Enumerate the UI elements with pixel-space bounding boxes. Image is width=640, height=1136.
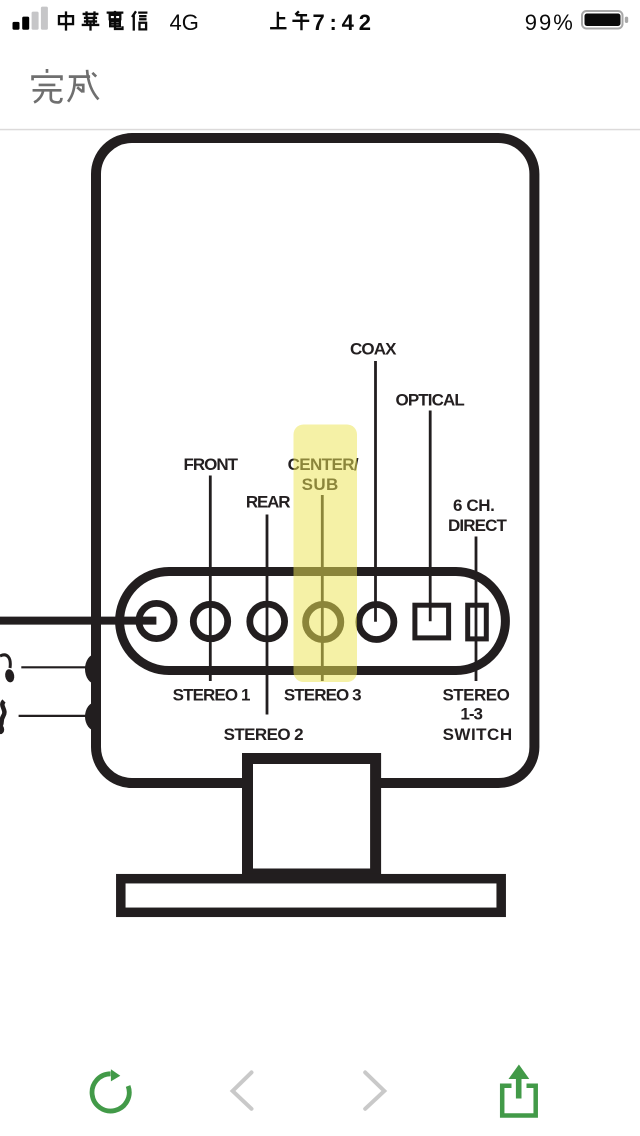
RCA jack 1 <box>139 603 174 638</box>
input wire into jack 1 <box>0 617 156 625</box>
toolbar: back chevron <box>233 1072 252 1108</box>
svg-text:4G: 4G <box>170 10 199 35</box>
status bar: battery nub <box>625 17 628 23</box>
leader line COAX to jack 5 <box>374 361 377 622</box>
svg-text:STEREO 1: STEREO 1 <box>173 685 250 704</box>
status bar: battery fill <box>585 14 621 27</box>
stand base <box>121 879 501 913</box>
svg-text:1-3: 1-3 <box>460 705 482 724</box>
device body outline <box>96 138 534 783</box>
cable squiggle end (top-left) <box>0 655 10 668</box>
status bar: time 上午 <box>270 11 309 30</box>
switch slot rectangle <box>468 605 487 639</box>
svg-text:STEREO 3: STEREO 3 <box>284 685 361 704</box>
svg-text:FRONT: FRONT <box>184 455 239 474</box>
toolbar: forward chevron <box>365 1072 384 1108</box>
cable blob (top-left) <box>4 669 15 684</box>
status bar: battery body outline <box>582 11 623 29</box>
svg-text:7:42: 7:42 <box>313 10 376 35</box>
RCA jack 3 (REAR) <box>250 604 285 639</box>
stand neck <box>248 759 376 875</box>
RCA jack 4 (CENTER/SUB) <box>306 604 341 639</box>
cable squiggle end (bottom-left) <box>0 701 4 726</box>
status bar: signal bar 1 <box>13 22 20 30</box>
svg-text:COAX: COAX <box>350 340 397 359</box>
svg-text:STEREO: STEREO <box>442 685 509 704</box>
svg-text:DIRECT: DIRECT <box>448 516 507 535</box>
hairline under nav area <box>0 129 640 131</box>
leader line CENTER/SUB to jack 4 / STEREO 3 <box>321 495 324 681</box>
toolbar: share icon <box>502 1065 536 1116</box>
RCA jack 2 (FRONT) <box>193 604 227 638</box>
connector pill outline <box>120 572 506 671</box>
leader line 6CH DIRECT to switch / STEREO 1-3 SWITCH <box>475 537 478 682</box>
leader line FRONT to jack 2 <box>209 476 212 682</box>
svg-text:OPTICAL: OPTICAL <box>396 391 465 410</box>
optical port square <box>415 605 449 638</box>
thin lead line to upper bump <box>21 666 88 668</box>
status bar: signal bar 3 (empty) <box>32 12 39 30</box>
upper bump connector on device left edge <box>85 654 107 684</box>
lower bump connector on device left edge <box>85 702 107 731</box>
svg-text:6 CH.: 6 CH. <box>453 496 494 515</box>
status bar: carrier name 中華電信 <box>59 11 147 31</box>
svg-text:SWITCH: SWITCH <box>443 725 513 744</box>
status bar: signal bar 2 <box>22 17 29 30</box>
svg-text:STEREO 2: STEREO 2 <box>224 725 303 744</box>
svg-text:REAR: REAR <box>246 493 290 512</box>
leader line REAR to jack 3 / STEREO 2 <box>266 515 269 715</box>
thin lead line to lower bump <box>19 715 88 717</box>
toolbar: reload icon <box>92 1069 129 1111</box>
leader line OPTICAL to optical port <box>429 411 432 622</box>
status bar: signal bar 4 (empty) <box>41 7 48 30</box>
cable blob (bottom-left) <box>0 725 4 734</box>
RCA jack 5 (COAX) <box>359 605 394 640</box>
nav title 完成 (Done) <box>33 69 99 102</box>
svg-text:99%: 99% <box>525 10 575 35</box>
yellow highlighter stroke over CENTER/SUB column <box>294 425 358 683</box>
